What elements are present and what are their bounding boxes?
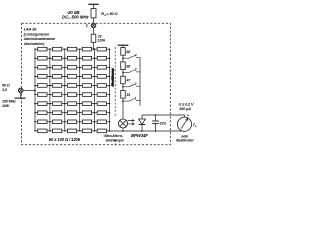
wire grid column bus 3 <box>64 49 66 131</box>
svg-text:33: 33 <box>126 93 130 97</box>
wire grid column bus 4 <box>79 49 81 131</box>
wire <box>93 18 95 23</box>
node 1 <box>122 100 124 102</box>
svg-text:3: 3 <box>135 68 137 72</box>
svg-text:LAA 36: LAA 36 <box>24 27 38 32</box>
wire grid row 7 <box>35 103 110 105</box>
svg-text:Abschirmung: Abschirmung <box>111 68 115 88</box>
svg-text:50 x 100 Ω / 1206: 50 x 100 Ω / 1206 <box>49 137 81 142</box>
svg-text:U ≤ 0,2 V: U ≤ 0,2 V <box>179 102 194 106</box>
terminal bar top <box>88 3 98 5</box>
resistor 68 (2) <box>121 62 126 70</box>
svg-text:(Leistungsmesser: (Leistungsmesser <box>24 33 51 37</box>
svg-text:Abschlusswiderstand: Abschlusswiderstand <box>23 37 55 41</box>
svg-text:DC...500 MHz: DC...500 MHz <box>62 15 89 20</box>
svg-text:68: 68 <box>126 64 130 68</box>
resistor Ra <box>91 9 96 18</box>
attenuator chain terminal bar <box>118 44 129 46</box>
chassis bar <box>20 93 22 98</box>
svg-text:100 µA: 100 µA <box>179 107 191 111</box>
bottom wire <box>110 130 185 132</box>
wire grid row 2 <box>35 57 110 59</box>
node 4 <box>122 57 124 59</box>
light arrows <box>128 120 135 122</box>
wire grid row 3 <box>35 66 110 68</box>
wire grid row 8 <box>35 112 110 114</box>
capacitor 22n <box>155 115 157 121</box>
svg-text:10W: 10W <box>2 104 10 108</box>
switch bus <box>139 58 141 106</box>
node 3 <box>122 72 124 74</box>
grid junction dots <box>34 48 110 131</box>
partition dashed wall <box>114 47 116 145</box>
svg-text:Abschwächer): Abschwächer) <box>23 42 45 46</box>
resistor 22/1206 <box>91 34 96 42</box>
wire grid row 4 <box>35 75 110 77</box>
svg-text:BPW34F: BPW34F <box>131 133 148 138</box>
wire <box>93 28 95 35</box>
rotary switch S1 <box>123 56 140 106</box>
lamp La1 <box>119 119 128 128</box>
svg-text:4: 4 <box>134 53 137 57</box>
wire <box>122 84 124 91</box>
wire <box>122 70 124 77</box>
grid resistor bodies <box>38 47 107 132</box>
meter M1 <box>177 117 191 131</box>
resistor 68 (1) <box>121 48 126 56</box>
svg-text:2: 2 <box>134 82 137 86</box>
lamp bottom lead <box>122 128 124 131</box>
svg-text:68: 68 <box>126 50 130 54</box>
svg-text:1206: 1206 <box>97 38 106 42</box>
wire grid right bus <box>109 49 111 131</box>
connector J2 (-20dB out) <box>91 23 96 28</box>
wire <box>93 4 95 8</box>
wire grid row 6 <box>35 94 110 96</box>
node 2 <box>122 86 124 88</box>
wire grid row 1 <box>35 48 110 50</box>
top wire to meter <box>142 115 185 117</box>
svg-text:50 Ω: 50 Ω <box>2 83 10 87</box>
wire grid left bus <box>34 49 36 131</box>
wire to lamp <box>122 98 124 119</box>
resistor 47 <box>121 76 126 84</box>
wire grid column bus 5 <box>94 49 96 131</box>
svg-text:1: 1 <box>135 96 137 100</box>
connector J1 input <box>18 88 23 93</box>
node tap <box>93 48 95 50</box>
svg-text:Glühlampe: Glühlampe <box>106 138 124 142</box>
wire <box>93 42 95 49</box>
wire <box>23 89 35 91</box>
wire grid row 9 <box>35 121 110 123</box>
title text LAA 36 <box>23 27 55 46</box>
wire grid row 10 <box>35 130 110 132</box>
wire <box>122 55 124 62</box>
wire grid row 5 <box>35 84 110 86</box>
photodiode D1 BPW34F <box>141 115 143 119</box>
svg-text:Multimeter: Multimeter <box>176 139 194 143</box>
node input <box>34 90 36 92</box>
enclosure dashed box <box>22 23 171 145</box>
svg-text:= 50 Ω: = 50 Ω <box>106 11 117 16</box>
resistor 33 <box>121 91 126 99</box>
wire grid column bus 2 <box>49 49 51 131</box>
svg-text:22n: 22n <box>159 122 167 126</box>
